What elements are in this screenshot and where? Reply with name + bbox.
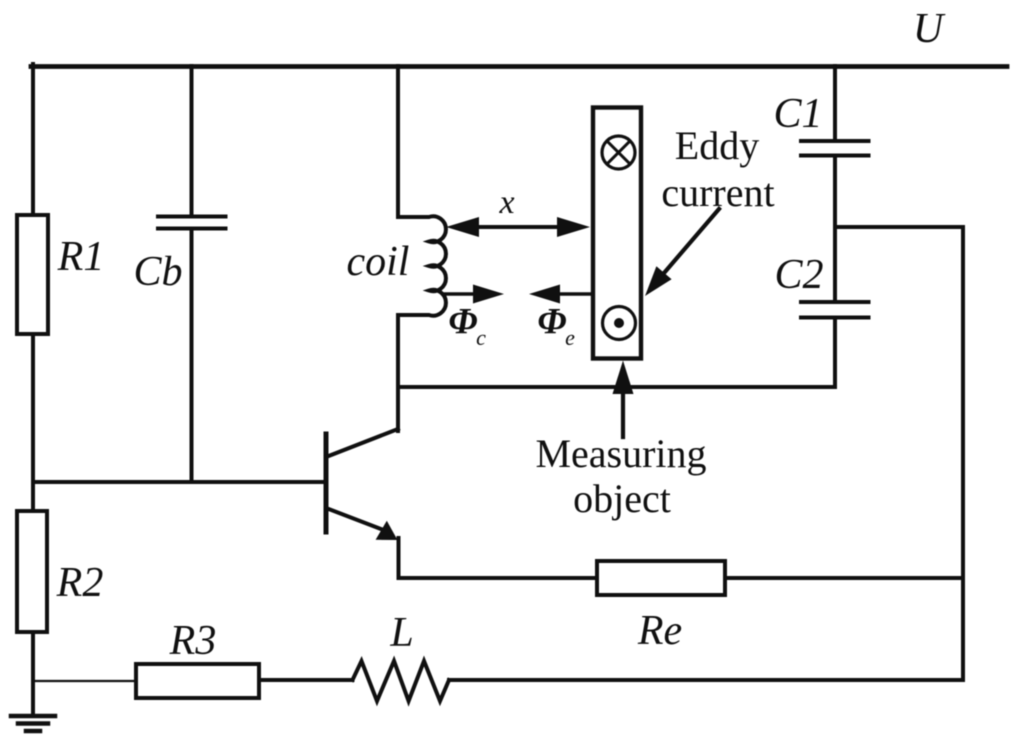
wire left rail middle	[31, 334, 35, 513]
wire emitter to Re	[399, 576, 598, 580]
svg-text:object: object	[573, 476, 671, 521]
wire base	[33, 480, 326, 484]
capacitor Cb	[158, 217, 226, 229]
wire R3 to L	[259, 678, 353, 682]
resistor R1	[17, 215, 48, 334]
svg-text:e: e	[565, 325, 575, 350]
resistor Re	[597, 561, 725, 595]
svg-text:C2: C2	[774, 252, 823, 298]
capacitor C2	[801, 302, 869, 318]
wire top rail U	[31, 64, 1007, 69]
arrow flux Phi_c	[443, 285, 504, 304]
resistor R2	[17, 511, 47, 632]
wire bottom rail	[449, 678, 963, 682]
symbol current out of page	[603, 307, 636, 340]
ground	[11, 716, 55, 731]
svg-text:x: x	[498, 184, 514, 221]
svg-text:R3: R3	[169, 618, 217, 664]
svg-text:R1: R1	[57, 234, 105, 280]
wire left rail lower	[31, 632, 35, 716]
wire Re to right rail	[725, 576, 963, 580]
svg-text:R2: R2	[56, 560, 104, 606]
arrow eddy current pointer	[645, 209, 719, 296]
wire right rail	[961, 227, 965, 680]
svg-text:coil: coil	[347, 239, 410, 285]
svg-text:C1: C1	[773, 91, 822, 137]
capacitor C1	[801, 141, 869, 156]
wire junction horizontal C1-C2	[835, 225, 963, 229]
wire coil top feed	[396, 66, 400, 217]
svg-text:Φ: Φ	[448, 302, 477, 343]
wire C branch top	[833, 66, 837, 141]
wire Cb branch upper	[190, 66, 194, 215]
svg-text:Cb: Cb	[133, 249, 182, 295]
svg-text:Measuring: Measuring	[535, 431, 706, 476]
symbol current into page	[602, 136, 635, 169]
svg-text:Re: Re	[637, 608, 682, 654]
transistor Q1	[326, 429, 398, 540]
measuring object plate	[593, 108, 641, 359]
wire C branch middle	[833, 156, 837, 302]
wire Cb branch lower	[190, 229, 194, 482]
wire coil bottom feed / collector	[396, 315, 400, 431]
svg-text:Φ: Φ	[537, 302, 566, 343]
svg-text:U: U	[913, 6, 946, 52]
svg-text:c: c	[476, 325, 486, 350]
wire ground to R3 thin	[33, 680, 136, 682]
resistor R3	[136, 664, 259, 698]
arrow flux Phi_e	[529, 285, 592, 304]
inductor L zigzag	[353, 661, 450, 701]
arrow measuring object pointer	[613, 361, 634, 438]
svg-text:L: L	[389, 610, 413, 656]
svg-text:Eddy: Eddy	[675, 123, 759, 168]
inductor coil	[398, 216, 446, 315]
wire emitter vertical	[397, 538, 401, 578]
wire C branch bottom	[833, 318, 837, 387]
wire left rail upper	[31, 64, 35, 217]
dimension arrow x	[446, 217, 590, 237]
wire mid horizontal	[398, 385, 835, 389]
